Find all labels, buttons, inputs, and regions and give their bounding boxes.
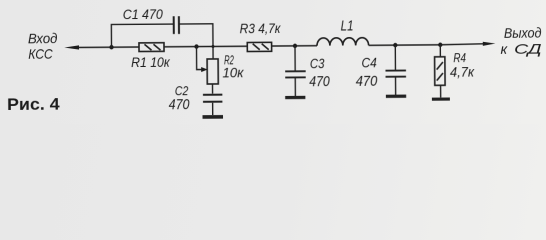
node junction C3 — [293, 44, 297, 48]
ground C4 — [386, 95, 406, 98]
capacitor C2 — [203, 95, 222, 102]
svg-text:Вход: Вход — [28, 30, 58, 46]
wire L1 to output — [369, 44, 484, 46]
svg-text:Рис. 4: Рис. 4 — [7, 95, 61, 113]
resistor R3 — [247, 42, 271, 51]
wire R2 to C2 — [211, 84, 213, 94]
resistor R4 — [435, 57, 446, 86]
svg-text:L1: L1 — [341, 19, 354, 35]
wire R4 stem — [439, 45, 441, 57]
svg-text:Выход: Выход — [504, 24, 542, 40]
node junction C1 left — [109, 45, 113, 49]
node junction C4 — [393, 43, 397, 47]
wire C4 stem — [394, 45, 396, 69]
capacitor C3 — [285, 71, 306, 77]
wire R4 to ground — [440, 85, 442, 97]
svg-text:С3: С3 — [310, 56, 325, 71]
capacitor C1 — [174, 16, 179, 34]
svg-text:470: 470 — [309, 73, 330, 90]
svg-text:R4: R4 — [453, 50, 466, 65]
wire C1 branch — [111, 24, 213, 60]
wire C3 to ground — [294, 78, 296, 96]
potentiometer R2 — [197, 46, 219, 84]
svg-text:R3 4,7к: R3 4,7к — [240, 21, 281, 36]
wire main line between R1 and R3 — [164, 45, 247, 48]
capacitor C4 — [385, 70, 406, 76]
output arrow — [483, 42, 496, 46]
svg-text:С4: С4 — [361, 55, 376, 70]
svg-text:470: 470 — [169, 96, 190, 113]
ground R4 — [432, 97, 450, 100]
node junction R2 wiper tap — [194, 44, 198, 48]
ground C2 — [203, 115, 223, 119]
ground C3 — [285, 96, 305, 99]
svg-text:СД: СД — [514, 40, 542, 56]
wire C4 to ground — [395, 78, 397, 95]
node junction R2 top — [211, 45, 214, 48]
wire R3 to L1 — [272, 45, 317, 47]
resistor R1 — [139, 43, 164, 52]
svg-text:4,7к: 4,7к — [450, 64, 475, 80]
wire C2 to ground — [212, 103, 214, 115]
svg-text:КСС: КСС — [28, 46, 53, 62]
wire C3 stem — [294, 46, 296, 70]
wire main line left segment — [78, 46, 139, 48]
svg-text:470: 470 — [356, 73, 378, 90]
svg-text:С1 470: С1 470 — [123, 7, 164, 22]
node junction R4 — [438, 43, 442, 47]
svg-text:R1 10к: R1 10к — [131, 55, 170, 70]
inductor L1 — [317, 38, 369, 46]
svg-text:к: к — [500, 41, 508, 57]
input arrow — [64, 45, 79, 49]
svg-text:10к: 10к — [222, 64, 244, 80]
